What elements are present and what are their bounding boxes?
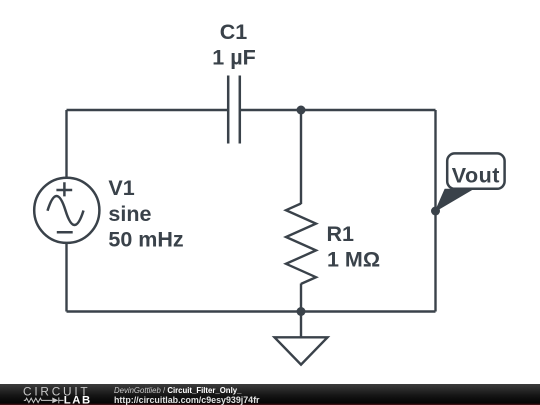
wire left upper [65, 110, 67, 177]
logo squiggle resistor and diode [24, 397, 64, 403]
svg-text:sine: sine [108, 202, 151, 226]
svg-text:50 mHz: 50 mHz [108, 228, 183, 252]
voltage source V1 [34, 178, 99, 243]
svg-text:Vout: Vout [452, 164, 500, 188]
wire from top node to R1 [300, 110, 302, 204]
wire left lower [65, 243, 67, 312]
footer bar [0, 384, 540, 405]
node Vout flag bubble [447, 153, 504, 188]
wire top rail right segment [241, 109, 436, 111]
footer bottom red line [0, 404, 540, 405]
node junction top [297, 106, 306, 115]
svg-text:1 µF: 1 µF [212, 46, 255, 70]
resistor R1 [286, 204, 316, 284]
wire right vertical [434, 110, 436, 312]
svg-text:C1: C1 [220, 20, 248, 44]
svg-text:R1: R1 [327, 222, 355, 246]
ground [275, 312, 328, 365]
node Vout flag tail [436, 189, 473, 211]
wire from R1 to bottom node [300, 284, 302, 312]
svg-text:LAB: LAB [64, 395, 92, 405]
capacitor C1 [228, 76, 240, 144]
svg-text:http://circuitlab.com/c9esy939: http://circuitlab.com/c9esy939j74fr [114, 395, 260, 405]
node junction bottom [297, 307, 306, 316]
svg-text:1 MΩ: 1 MΩ [327, 248, 380, 272]
node Vout junction dot [431, 207, 440, 216]
svg-text:V1: V1 [108, 176, 134, 200]
wire bottom rail [67, 310, 436, 312]
wire top rail left segment [67, 109, 228, 111]
svg-text:DevinGottlieb / Circuit_Filter: DevinGottlieb / Circuit_Filter_Only_ [114, 386, 242, 395]
